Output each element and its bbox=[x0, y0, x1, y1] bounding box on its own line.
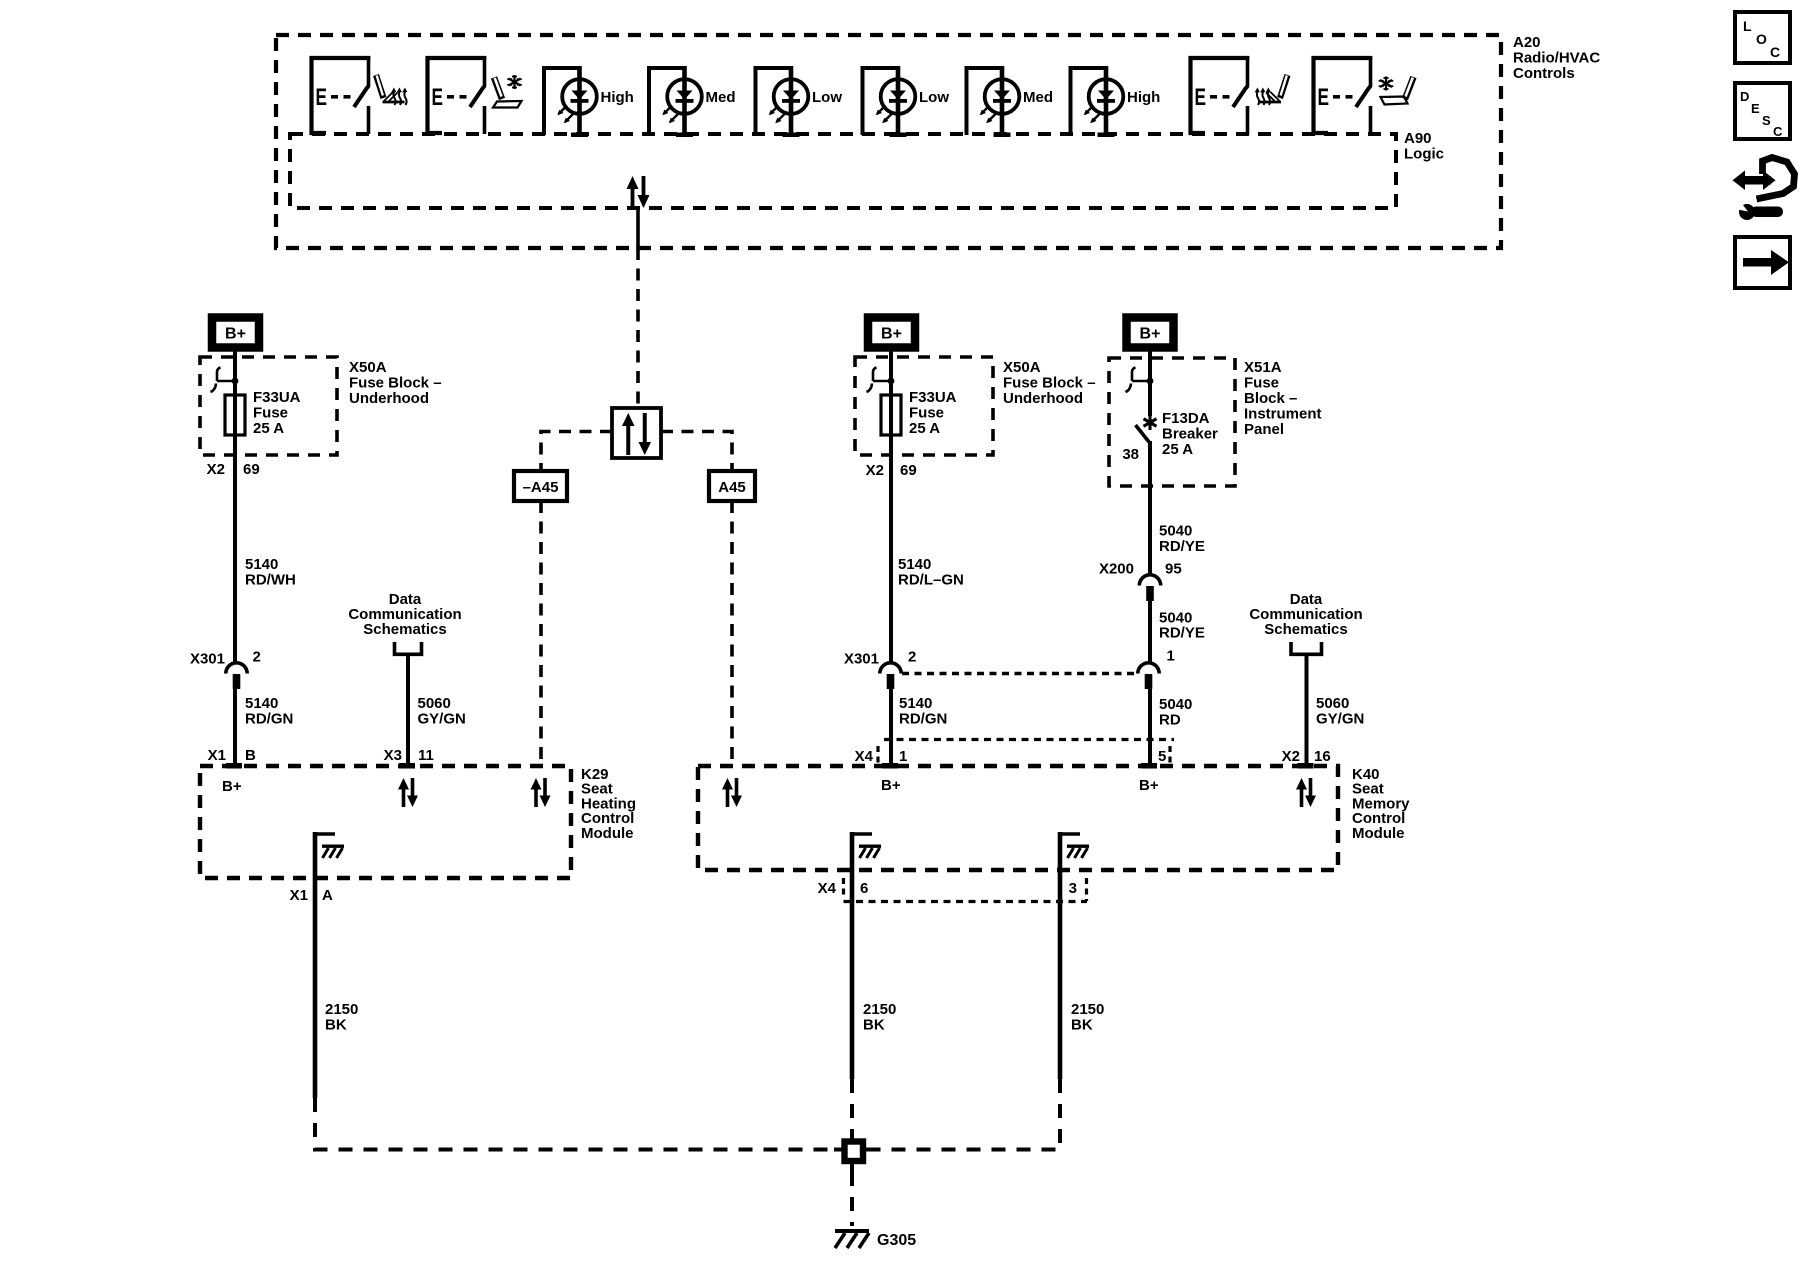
svg-text:X301: X301 bbox=[844, 651, 879, 668]
connector X4 bottom bracket right tick bbox=[1085, 878, 1088, 901]
LED indicator Low (left) bbox=[754, 66, 843, 137]
connector X200 bbox=[1139, 575, 1160, 601]
switch S4 vented seat (passenger) bbox=[1312, 56, 1373, 135]
svg-text:25 A: 25 A bbox=[1162, 441, 1193, 458]
wire 5140 RD/L-GN bbox=[889, 455, 893, 663]
svg-text:2150: 2150 bbox=[325, 1001, 358, 1018]
node A45 bbox=[709, 471, 755, 501]
svg-text:Module: Module bbox=[581, 825, 634, 842]
svg-text:Fuse: Fuse bbox=[909, 405, 944, 422]
B+ terminal 2 bbox=[868, 318, 915, 348]
svg-text:X50A: X50A bbox=[349, 359, 387, 376]
svg-text:5: 5 bbox=[1158, 748, 1166, 765]
K29 serial data arrows 1 bbox=[398, 778, 418, 807]
svg-text:6: 6 bbox=[860, 880, 868, 897]
svg-text:5140: 5140 bbox=[899, 695, 932, 712]
X50A (left) label bbox=[349, 359, 442, 407]
svg-text:C: C bbox=[1773, 124, 1783, 139]
svg-text:B: B bbox=[245, 747, 256, 764]
svg-text:X4: X4 bbox=[818, 880, 837, 897]
svg-text:BK: BK bbox=[863, 1017, 885, 1034]
svg-text:2: 2 bbox=[908, 649, 916, 666]
svg-text:1: 1 bbox=[899, 748, 907, 765]
connector X301 pin 2 (left) labels bbox=[190, 649, 261, 668]
svg-text:Radio/HVAC: Radio/HVAC bbox=[1513, 50, 1600, 67]
svg-text:Fuse Block –: Fuse Block – bbox=[349, 375, 442, 392]
svg-text:GY/GN: GY/GN bbox=[1316, 711, 1364, 728]
switch S1 heated seat (driver) bbox=[310, 56, 371, 135]
wire 5040 RD/YE label 1 bbox=[1159, 523, 1205, 556]
wire 5060 GY/GN right label bbox=[1316, 695, 1364, 728]
F33UA mid label bbox=[909, 389, 957, 437]
svg-text:38: 38 bbox=[1122, 446, 1139, 463]
K40 label bbox=[1352, 766, 1410, 842]
svg-text:11: 11 bbox=[418, 747, 434, 764]
svg-text:X50A: X50A bbox=[1003, 359, 1041, 376]
B+ terminal 1 bbox=[212, 318, 259, 348]
dashed wire splice to G305 bbox=[850, 1172, 854, 1226]
svg-text:5060: 5060 bbox=[1316, 695, 1349, 712]
fuse F33UA (mid) 25A bbox=[881, 395, 901, 435]
K40 ground wire pin X4/6 bbox=[850, 832, 855, 1079]
K40 internal ground 1 bbox=[852, 834, 881, 858]
svg-text:Block –: Block – bbox=[1244, 390, 1297, 407]
svg-text:Module: Module bbox=[1352, 825, 1405, 842]
LED indicator High (left) bbox=[542, 66, 634, 137]
svg-text:BK: BK bbox=[325, 1017, 347, 1034]
svg-text:Controls: Controls bbox=[1513, 65, 1575, 82]
K29 ground wire to pin X1/A bbox=[313, 832, 318, 1098]
svg-text:Breaker: Breaker bbox=[1162, 426, 1218, 443]
wire 5140 RD/GN mid label bbox=[899, 695, 947, 728]
svg-text:F33UA: F33UA bbox=[909, 389, 957, 406]
K40 serial data arrows right bbox=[1296, 778, 1316, 807]
next-page arrow icon bbox=[1735, 237, 1790, 288]
svg-text:A45: A45 bbox=[718, 479, 746, 496]
diagnostic navigation icon bbox=[1730, 158, 1795, 221]
X50A (mid) label bbox=[1003, 359, 1096, 407]
data link connector (serial data) bbox=[612, 408, 661, 458]
LED indicator Med (left) bbox=[647, 66, 736, 137]
F33UA left label bbox=[253, 389, 301, 437]
svg-text:Underhood: Underhood bbox=[1003, 390, 1083, 407]
dashed ground bus right bbox=[869, 1079, 1060, 1150]
svg-text:B+: B+ bbox=[1139, 777, 1159, 794]
svg-text:BK: BK bbox=[1071, 1017, 1093, 1034]
F13DA label bbox=[1122, 410, 1218, 463]
pin X2/69 mid bbox=[866, 462, 917, 479]
svg-text:B+: B+ bbox=[225, 326, 246, 343]
svg-text:RD/YE: RD/YE bbox=[1159, 625, 1205, 642]
svg-text:E: E bbox=[1195, 84, 1207, 111]
wire A90 to A20 edge bbox=[636, 208, 640, 248]
K40 ground wire pin 3 bbox=[1058, 832, 1063, 1079]
fine dashed link X301-2 to pin 1 bbox=[902, 672, 1137, 675]
wire 5140 RD/WH label bbox=[245, 556, 296, 589]
svg-text:2150: 2150 bbox=[1071, 1001, 1104, 1018]
K29 pin X1/A bbox=[290, 887, 333, 904]
X50A fuse block underhood (left) box bbox=[200, 357, 337, 455]
svg-text:Low: Low bbox=[919, 89, 949, 106]
K40 serial data arrows left bbox=[722, 778, 742, 807]
svg-text:Schematics: Schematics bbox=[1264, 621, 1347, 638]
connector X4 bracket right tick bbox=[1168, 746, 1171, 768]
K40 pin X2/16 bbox=[1282, 748, 1331, 769]
svg-text:5060: 5060 bbox=[418, 695, 451, 712]
K40 internal ground 2 bbox=[1060, 834, 1089, 858]
svg-text:RD/YE: RD/YE bbox=[1159, 538, 1205, 555]
connector X301 (mid) bbox=[880, 663, 901, 689]
svg-text:E: E bbox=[432, 84, 444, 111]
wire 5060 GY/GN left bbox=[406, 656, 410, 763]
svg-text:C: C bbox=[1770, 44, 1780, 60]
splice junction bbox=[834, 1131, 874, 1172]
switch S2 vented seat (driver) bbox=[426, 56, 487, 135]
svg-text:69: 69 bbox=[900, 462, 917, 479]
svg-text:5140: 5140 bbox=[245, 556, 278, 573]
svg-text:B+: B+ bbox=[222, 778, 242, 795]
B+ terminal 3 bbox=[1127, 318, 1174, 348]
svg-text:X3: X3 bbox=[384, 747, 402, 764]
A20 label bbox=[1513, 34, 1600, 82]
svg-text:16: 16 bbox=[1314, 748, 1331, 765]
svg-text:2: 2 bbox=[253, 649, 261, 666]
K29 serial data arrows 2 bbox=[531, 778, 551, 807]
K40 pin X4/6 bbox=[818, 880, 869, 897]
wire 5060 GY/GN right bbox=[1305, 656, 1309, 763]
svg-text:Fuse: Fuse bbox=[1244, 375, 1279, 392]
clip terminal mid fuse block bbox=[867, 368, 895, 393]
K29 internal ground bbox=[315, 834, 344, 858]
clip terminal left fuse block bbox=[211, 368, 239, 393]
svg-text:RD/GN: RD/GN bbox=[245, 711, 293, 728]
K40 pin 5 bbox=[1141, 748, 1166, 769]
svg-text:X200: X200 bbox=[1099, 561, 1134, 578]
svg-text:95: 95 bbox=[1165, 561, 1182, 578]
svg-text:X301: X301 bbox=[190, 651, 225, 668]
LOC icon bbox=[1735, 12, 1790, 63]
svg-text:Low: Low bbox=[812, 89, 842, 106]
connector X301 (left) bbox=[226, 663, 247, 689]
svg-text:X51A: X51A bbox=[1244, 359, 1282, 376]
svg-text:X2: X2 bbox=[866, 462, 884, 479]
LED indicator Low (right) bbox=[861, 66, 950, 137]
wire 5040 RD bbox=[1148, 689, 1152, 763]
dashed wire mid to splice bbox=[850, 1079, 854, 1136]
wire 5040 RD/YE 2 bbox=[1148, 601, 1152, 663]
wire 5140 RD/WH bbox=[233, 455, 237, 663]
fine dashed X4 bottom connector line bbox=[844, 900, 1088, 903]
svg-text:B+: B+ bbox=[881, 777, 901, 794]
connector X4 bottom bracket left tick bbox=[842, 878, 845, 899]
wire breaker to X200 bbox=[1148, 441, 1152, 575]
X51A fuse block instrument panel box bbox=[1109, 358, 1235, 486]
wire 2150 BK mid label bbox=[863, 1001, 896, 1034]
svg-text:RD/WH: RD/WH bbox=[245, 572, 296, 589]
svg-text:B+: B+ bbox=[1140, 326, 1161, 343]
wire B+2 to fuse F33UA mid bbox=[889, 350, 893, 456]
X51A label bbox=[1244, 359, 1322, 438]
connector pin 1 arc bbox=[1138, 663, 1159, 689]
A90 label bbox=[1404, 130, 1444, 163]
pin X2/69 left bbox=[207, 461, 260, 478]
svg-text:E: E bbox=[1751, 101, 1760, 116]
svg-text:RD/L–GN: RD/L–GN bbox=[898, 572, 964, 589]
wire 5060 GY/GN left label bbox=[418, 695, 466, 728]
svg-text:Fuse: Fuse bbox=[253, 405, 288, 422]
up/down arrows in A90 bbox=[627, 176, 650, 208]
svg-text:Schematics: Schematics bbox=[363, 621, 446, 638]
svg-text:High: High bbox=[601, 89, 634, 106]
svg-text:F33UA: F33UA bbox=[253, 389, 301, 406]
svg-text:O: O bbox=[1756, 31, 1767, 47]
wire B+1 to fuse F33UA bbox=[233, 350, 237, 456]
K40 Seat Memory Control Module box bbox=[698, 766, 1338, 870]
svg-text:–A45: –A45 bbox=[523, 479, 559, 496]
wire 5040 RD label bbox=[1159, 696, 1192, 729]
wire 2150 BK left label bbox=[325, 1001, 358, 1034]
wire 5040 RD/YE label 2 bbox=[1159, 610, 1205, 642]
svg-text:A: A bbox=[322, 887, 333, 904]
dashed wire data link to A45 bbox=[661, 432, 732, 472]
svg-text:5140: 5140 bbox=[245, 695, 278, 712]
vented seat icon 1 bbox=[493, 75, 522, 108]
wire 5140 RD/L-GN label bbox=[898, 556, 964, 589]
svg-text:E: E bbox=[316, 84, 328, 111]
svg-text:1: 1 bbox=[1167, 648, 1175, 665]
svg-text:High: High bbox=[1127, 89, 1160, 106]
svg-text:2150: 2150 bbox=[863, 1001, 896, 1018]
heated seat icon 2 bbox=[1255, 75, 1288, 105]
svg-text:G305: G305 bbox=[877, 1232, 916, 1249]
svg-text:X1: X1 bbox=[208, 747, 226, 764]
svg-text:5040: 5040 bbox=[1159, 696, 1192, 713]
svg-text:25 A: 25 A bbox=[253, 420, 284, 437]
svg-text:Instrument: Instrument bbox=[1244, 406, 1322, 423]
svg-text:A90: A90 bbox=[1404, 130, 1432, 147]
svg-text:3: 3 bbox=[1069, 880, 1077, 897]
connector X200 pin 95 labels bbox=[1099, 561, 1182, 578]
connector X301 pin 2 (mid) labels bbox=[844, 649, 916, 668]
dashed wire data link to -A45 bbox=[541, 432, 612, 472]
svg-text:F13DA: F13DA bbox=[1162, 410, 1210, 427]
X50A fuse block underhood (mid) box bbox=[855, 357, 993, 455]
svg-text:25 A: 25 A bbox=[909, 420, 940, 437]
wire 2150 BK right label bbox=[1071, 1001, 1104, 1034]
A20 Radio/HVAC Controls box bbox=[276, 35, 1501, 248]
connector X4 bracket left tick bbox=[876, 746, 879, 768]
K29 pin X3/11 bbox=[384, 747, 434, 769]
LED indicator Med (right) bbox=[965, 66, 1054, 137]
svg-text:RD: RD bbox=[1159, 712, 1181, 729]
dashed wire A45 to K40 bbox=[730, 501, 734, 766]
wire 5140 RD/GN left label bbox=[245, 695, 293, 728]
dashed wire -A45 to K29 bbox=[539, 501, 543, 766]
svg-text:Fuse Block –: Fuse Block – bbox=[1003, 375, 1096, 392]
svg-text:5040: 5040 bbox=[1159, 523, 1192, 540]
wire B+3 into X51A bbox=[1148, 350, 1152, 416]
K40 pin X4/1 bbox=[855, 748, 908, 769]
svg-text:Med: Med bbox=[706, 89, 736, 106]
DESC icon bbox=[1735, 83, 1790, 139]
dashed wire A20 to data link connector bbox=[636, 248, 640, 408]
vented seat icon 2 bbox=[1379, 77, 1414, 105]
breaker F13DA 25A bbox=[1136, 415, 1157, 442]
svg-text:E: E bbox=[1318, 84, 1330, 111]
svg-text:D: D bbox=[1740, 89, 1749, 104]
K29 Seat Heating Control Module box bbox=[200, 766, 571, 878]
K29 label bbox=[581, 766, 636, 842]
wire 5140 RD/GN left bbox=[233, 689, 237, 763]
clip terminal X51A bbox=[1126, 368, 1154, 393]
svg-text:X4: X4 bbox=[855, 748, 874, 765]
ground G305 bbox=[835, 1229, 869, 1248]
svg-text:Underhood: Underhood bbox=[349, 390, 429, 407]
switch S3 heated seat (passenger) bbox=[1189, 56, 1250, 135]
svg-text:Logic: Logic bbox=[1404, 146, 1444, 163]
heated seat icon 1 bbox=[376, 75, 407, 105]
node -A45 bbox=[514, 471, 567, 501]
LED indicator High (right) bbox=[1069, 66, 1161, 137]
svg-text:A20: A20 bbox=[1513, 34, 1541, 51]
dashed ground bus left bbox=[315, 1098, 838, 1150]
svg-text:B+: B+ bbox=[881, 326, 902, 343]
svg-text:69: 69 bbox=[243, 461, 260, 478]
K29 pin X1/B bbox=[208, 747, 256, 769]
svg-text:GY/GN: GY/GN bbox=[418, 711, 466, 728]
svg-text:Panel: Panel bbox=[1244, 421, 1284, 438]
A90 Logic inner box bbox=[290, 134, 1396, 208]
svg-text:5140: 5140 bbox=[898, 556, 931, 573]
svg-text:Med: Med bbox=[1023, 89, 1053, 106]
svg-text:S: S bbox=[1762, 113, 1771, 128]
fuse F33UA (left) 25A bbox=[225, 395, 245, 435]
Data Communication Schematics (right) bbox=[1249, 591, 1362, 654]
wire 5140 RD/GN mid bbox=[889, 689, 893, 763]
fine dashed X4 connector line bbox=[884, 738, 1174, 741]
Data Communication Schematics (left) bbox=[348, 591, 461, 654]
svg-text:RD/GN: RD/GN bbox=[899, 711, 947, 728]
svg-text:X1: X1 bbox=[290, 887, 308, 904]
svg-text:X2: X2 bbox=[1282, 748, 1300, 765]
svg-text:X2: X2 bbox=[207, 461, 225, 478]
svg-text:L: L bbox=[1743, 18, 1752, 34]
